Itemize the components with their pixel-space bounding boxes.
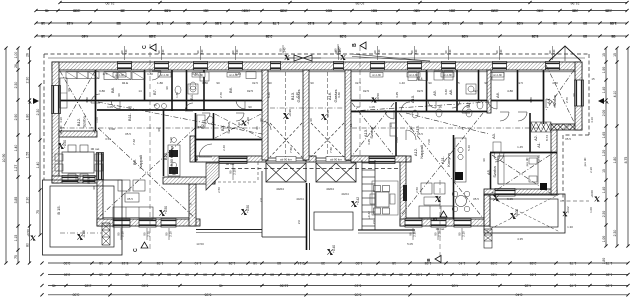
- svg-text:2.70: 2.70: [565, 97, 569, 103]
- svg-text:A1.: A1.: [537, 142, 541, 147]
- svg-text:2.30: 2.30: [613, 230, 617, 237]
- garage door label A: [326, 157, 346, 162]
- coffee table living B: [125, 193, 139, 202]
- window top wall 5: [271, 62, 281, 71]
- door arc A7: [462, 105, 470, 113]
- window living A front 2: [431, 219, 446, 228]
- svg-text:1.40: 1.40: [195, 261, 202, 265]
- svg-text:7.00: 7.00: [427, 139, 431, 145]
- svg-text:30: 30: [350, 272, 354, 276]
- exterior wall garage front: [196, 156, 266, 162]
- svg-text:26: 26: [14, 64, 18, 68]
- elevation mark drive A: [351, 201, 356, 206]
- svg-text:75: 75: [456, 81, 460, 85]
- svg-text:10.: 10.: [389, 123, 393, 127]
- svg-text:2.30: 2.30: [589, 167, 593, 173]
- lintel labels above windows: [124, 46, 126, 60]
- left dimension line col 2: [17, 48, 19, 263]
- svg-text:2.25: 2.25: [572, 8, 579, 12]
- svg-text:1.00: 1.00: [589, 207, 593, 213]
- svg-text:B11.: B11.: [127, 113, 132, 121]
- svg-text:240: 240: [377, 49, 381, 54]
- exterior wall west protrusion: [97, 176, 103, 226]
- ridge dash-dot line B: [60, 127, 262, 129]
- svg-text:3.00: 3.00: [73, 8, 80, 12]
- svg-text:90: 90: [185, 272, 189, 276]
- svg-text:sm 1.80: sm 1.80: [160, 74, 169, 77]
- gable symbol top right: [549, 46, 581, 61]
- svg-text:ab 90 ker: ab 90 ker: [280, 157, 292, 161]
- svg-text:5.40: 5.40: [267, 92, 271, 98]
- wardrobe room B12: [60, 78, 67, 108]
- svg-text:2.10: 2.10: [146, 231, 150, 237]
- svg-text:2.30: 2.30: [602, 211, 606, 218]
- door arc B2: [202, 113, 210, 121]
- svg-text:Szoba: Szoba: [369, 127, 374, 139]
- exterior wall right lower: [551, 126, 557, 195]
- svg-text:Szoba: Szoba: [552, 95, 557, 107]
- elevation mark B3: [242, 121, 247, 126]
- svg-text:1.80: 1.80: [602, 258, 606, 265]
- top dimension line row 1: [60, 2, 627, 4]
- svg-text:1.05: 1.05: [107, 105, 113, 109]
- svg-text:1.90: 1.90: [602, 67, 606, 74]
- window right wall: [575, 80, 584, 106]
- svg-text:2.10: 2.10: [233, 169, 237, 175]
- svg-text:Szoba: Szoba: [82, 116, 87, 128]
- roof diagonal A5: [492, 155, 550, 193]
- svg-text:7.32: 7.32: [132, 139, 136, 145]
- door arc A8: [452, 100, 460, 108]
- svg-text:1.75: 1.75: [570, 283, 577, 287]
- svg-text:B3.: B3.: [220, 125, 225, 131]
- svg-text:40/24: 40/24: [341, 192, 349, 196]
- svg-text:sm 1.80: sm 1.80: [443, 74, 452, 77]
- svg-text:15: 15: [613, 53, 617, 57]
- svg-text:4.60: 4.60: [165, 8, 172, 12]
- window living A front 1: [405, 219, 422, 228]
- garage A16 right wall: [345, 70, 351, 160]
- svg-text:1.80: 1.80: [356, 261, 363, 265]
- armchairs living B: [118, 180, 130, 191]
- svg-text:1.50: 1.50: [215, 21, 222, 25]
- interior wall B12 right: [95, 70, 97, 135]
- svg-text:A14.: A14.: [417, 77, 424, 81]
- interior wall corridor A top: [351, 100, 543, 102]
- entry porch B dashed outline: [208, 181, 258, 183]
- window A13 front: [369, 157, 395, 164]
- roof diagonal living B: [98, 128, 195, 218]
- svg-text:4.95: 4.95: [462, 34, 469, 38]
- interior wall B12 bottom hatched: [59, 131, 97, 137]
- svg-text:+0.50: +0.50: [63, 140, 67, 148]
- svg-text:1.55: 1.55: [25, 152, 29, 159]
- svg-text:+0.40: +0.40: [332, 245, 336, 253]
- svg-text:240: 240: [283, 47, 287, 52]
- garage B13 left wall: [262, 70, 268, 160]
- svg-text:4.60: 4.60: [371, 8, 378, 12]
- elevation mark B15: [77, 234, 82, 239]
- svg-text:90: 90: [259, 118, 263, 122]
- svg-text:26: 26: [25, 53, 29, 57]
- svg-text:+0.50: +0.50: [26, 229, 30, 237]
- bath B fixtures: [188, 84, 198, 94]
- svg-text:6.80: 6.80: [142, 283, 149, 287]
- svg-text:Konyha: Konyha: [446, 152, 451, 166]
- svg-text:-0.06: -0.06: [82, 230, 86, 237]
- svg-text:C: C: [142, 45, 148, 49]
- window left wall: [52, 86, 61, 114]
- svg-text:5.15: 5.15: [122, 261, 129, 265]
- svg-text:240: 240: [161, 49, 165, 54]
- svg-text:02.5: 02.5: [247, 89, 253, 93]
- svg-text:80: 80: [203, 272, 207, 276]
- svg-text:240: 240: [124, 49, 128, 54]
- svg-text:4.60: 4.60: [491, 272, 498, 276]
- elevation mark +0.50 patio B: [58, 143, 63, 148]
- window living A front 3: [454, 219, 471, 228]
- svg-text:+1.00: +1.00: [246, 117, 250, 125]
- window top wall 3: [194, 62, 208, 71]
- window top wall 11: [546, 62, 560, 71]
- entrance steps A: [484, 229, 492, 248]
- right dimension line col 2: [616, 48, 618, 246]
- svg-text:80: 80: [583, 21, 587, 25]
- hall cabinet A: [492, 72, 504, 80]
- exterior wall top: [52, 62, 582, 70]
- terrace B15 outline: [43, 180, 123, 255]
- exterior wall living A front: [400, 219, 490, 226]
- bath A fixtures 2: [434, 71, 443, 80]
- svg-text:240: 240: [448, 49, 452, 54]
- door arc bath B: [185, 103, 193, 111]
- svg-text:3.85: 3.85: [14, 197, 18, 204]
- svg-text:75: 75: [36, 210, 40, 214]
- interior wall B3 left: [213, 113, 215, 140]
- patio A outline: [372, 181, 398, 215]
- svg-text:8.40: 8.40: [516, 293, 523, 297]
- garage B13 centre line: [285, 72, 287, 157]
- window west wall terrace 2: [83, 176, 95, 184]
- svg-text:15: 15: [41, 21, 45, 25]
- window top wall 6: [334, 62, 344, 71]
- door arc A10: [401, 102, 410, 111]
- window top wall 8: [408, 62, 422, 71]
- svg-text:1.05: 1.05: [369, 105, 375, 109]
- door arc A13: [385, 110, 394, 119]
- svg-text:2.85: 2.85: [530, 261, 537, 265]
- svg-text:B6.: B6.: [228, 87, 233, 93]
- svg-text:3.30: 3.30: [64, 272, 71, 276]
- svg-text:4.95: 4.95: [517, 21, 524, 25]
- svg-text:02.5: 02.5: [363, 89, 369, 93]
- svg-text:2.85: 2.85: [85, 283, 92, 287]
- window sill label boxes: [113, 73, 126, 78]
- radiator A13 wall: [390, 123, 396, 136]
- svg-text:05.5: 05.5: [473, 197, 479, 201]
- kitchen counter A: [455, 138, 466, 182]
- attic stair A with X bracing: [531, 122, 551, 132]
- interior wall A9 right: [456, 70, 458, 111]
- door arc A3: [518, 112, 527, 121]
- top dimension line row 2: [36, 10, 627, 12]
- svg-text:2.75: 2.75: [376, 21, 383, 25]
- svg-text:80: 80: [583, 34, 587, 38]
- party wall between garages: [303, 70, 309, 160]
- interior wall A2 divider: [529, 113, 531, 153]
- roof diagonal garage A16: [311, 123, 344, 157]
- svg-text:pro 90: pro 90: [583, 157, 587, 166]
- window top wall 4: [229, 62, 243, 71]
- svg-text:+0.98: +0.98: [288, 109, 292, 117]
- svg-text:4.35: 4.35: [517, 237, 523, 241]
- svg-text:80: 80: [277, 261, 281, 265]
- roof diagonal living A: [399, 113, 483, 218]
- svg-text:30: 30: [150, 272, 154, 276]
- svg-text:10.90: 10.90: [2, 154, 6, 163]
- svg-text:1.20: 1.20: [602, 150, 606, 157]
- svg-text:4.25: 4.25: [395, 92, 399, 98]
- wardrobe row room B8: [104, 72, 117, 80]
- svg-text:2.0: 2.0: [372, 220, 376, 225]
- svg-text:240: 240: [552, 49, 556, 54]
- svg-text:40: 40: [343, 21, 347, 25]
- svg-text:3.30: 3.30: [73, 293, 80, 297]
- svg-text:80: 80: [270, 272, 274, 276]
- svg-text:90: 90: [428, 81, 432, 85]
- svg-text:05.5: 05.5: [127, 197, 133, 201]
- svg-text:16: 16: [188, 202, 192, 206]
- garage door sill B: [266, 157, 306, 159]
- svg-text:9.25: 9.25: [340, 34, 347, 38]
- svg-text:3.40: 3.40: [444, 89, 448, 95]
- svg-text:45: 45: [52, 283, 56, 287]
- svg-text:4.15: 4.15: [67, 21, 74, 25]
- svg-text:Szoba: Szoba: [226, 122, 231, 134]
- svg-text:+0.50: +0.50: [164, 206, 168, 214]
- door arc A6: [488, 100, 497, 109]
- svg-text:02.5: 02.5: [517, 81, 523, 85]
- svg-text:C: C: [133, 248, 139, 252]
- svg-text:B: B: [352, 43, 358, 47]
- svg-text:240: 240: [200, 49, 204, 54]
- svg-text:2.70: 2.70: [219, 92, 223, 98]
- svg-text:05.5: 05.5: [565, 137, 571, 141]
- svg-text:1.80: 1.80: [157, 81, 163, 85]
- sofa living A: [419, 206, 453, 218]
- interior wall B7 right: [171, 70, 173, 111]
- svg-text:+0.42: +0.42: [356, 197, 360, 205]
- svg-text:2.85: 2.85: [491, 261, 498, 265]
- ridge line dashed top: [149, 44, 151, 252]
- door arc entry B: [199, 144, 212, 157]
- door arc B12: [91, 94, 100, 103]
- elevation mark terrace A corner: [563, 212, 567, 216]
- paving edge A: [358, 229, 415, 231]
- right dimension line col 1: [605, 48, 607, 246]
- svg-text:16.: 16.: [198, 125, 202, 129]
- svg-text:4.30: 4.30: [59, 117, 63, 123]
- svg-text:14: 14: [239, 272, 243, 276]
- svg-text:45: 45: [219, 283, 223, 287]
- svg-text:30: 30: [255, 272, 259, 276]
- svg-text:90: 90: [409, 126, 413, 130]
- svg-text:1.75: 1.75: [570, 261, 577, 265]
- window tick utility B: [232, 163, 234, 180]
- lintel tick B: [282, 45, 284, 55]
- svg-text:1.95: 1.95: [610, 21, 617, 25]
- svg-text:90: 90: [255, 126, 259, 130]
- svg-text:80: 80: [366, 272, 370, 276]
- chimney block A5: [540, 183, 547, 190]
- dining table B14: [62, 152, 94, 173]
- property line center: [306, 183, 308, 250]
- svg-text:175: 175: [102, 72, 107, 76]
- svg-text:sm 1.80: sm 1.80: [372, 74, 381, 77]
- svg-text:16: 16: [438, 105, 442, 109]
- svg-text:80: 80: [316, 272, 320, 276]
- svg-text:pro 90: pro 90: [525, 157, 529, 166]
- outdoor dining table A: [376, 192, 389, 207]
- door arc living A: [406, 130, 416, 140]
- svg-text:1.40: 1.40: [14, 145, 18, 152]
- svg-text:10.95: 10.95: [356, 1, 365, 5]
- svg-text:46: 46: [538, 8, 542, 12]
- svg-text:2.10: 2.10: [120, 231, 124, 237]
- window west wall terrace 1: [62, 176, 78, 184]
- svg-text:02.E: 02.E: [122, 81, 128, 85]
- svg-text:1.80: 1.80: [175, 92, 179, 98]
- elevation mark A13: [372, 98, 377, 103]
- svg-text:15: 15: [99, 261, 103, 265]
- svg-text:5.05: 5.05: [407, 242, 413, 246]
- walkway ladder A: [361, 160, 363, 230]
- svg-text:90: 90: [248, 105, 252, 109]
- svg-text:80: 80: [203, 8, 207, 12]
- exterior wall living B front: [97, 219, 200, 226]
- washbasins B7: [155, 104, 160, 109]
- closet row room B12: [66, 72, 77, 79]
- roof diagonal room B12: [60, 71, 95, 133]
- interior wall corridor B top: [59, 100, 262, 102]
- svg-text:1.30: 1.30: [570, 272, 577, 276]
- svg-text:3.80: 3.80: [99, 89, 105, 93]
- svg-text:4.80: 4.80: [552, 81, 558, 85]
- interior wall A4 left: [543, 70, 545, 124]
- svg-text:02.5: 02.5: [417, 89, 423, 93]
- svg-text:2.30: 2.30: [36, 109, 40, 116]
- svg-text:+0.02: +0.02: [566, 206, 570, 214]
- svg-text:2.30: 2.30: [14, 82, 18, 89]
- wall A13 front: [351, 156, 406, 162]
- svg-text:5.10: 5.10: [308, 21, 315, 25]
- svg-text:2.40: 2.40: [205, 34, 212, 38]
- interior wall kitchen A right: [453, 135, 455, 219]
- svg-text:2.40: 2.40: [491, 8, 498, 12]
- svg-text:sm 1.80: sm 1.80: [493, 74, 502, 77]
- door arc garage B: [262, 121, 271, 130]
- svg-text:1.75: 1.75: [273, 21, 280, 25]
- svg-text:Nappali: Nappali: [419, 145, 424, 159]
- svg-text:46: 46: [45, 8, 49, 12]
- svg-text:15: 15: [99, 272, 103, 276]
- svg-text:8.75: 8.75: [624, 157, 628, 164]
- svg-text:90: 90: [92, 186, 96, 190]
- svg-text:95: 95: [611, 34, 615, 38]
- apron slab A: [314, 212, 353, 230]
- ridge dash-dot line A: [352, 127, 545, 129]
- svg-text:1.15: 1.15: [14, 235, 18, 242]
- entrance steps B: [102, 223, 110, 245]
- svg-text:90: 90: [128, 105, 132, 109]
- window living B front 1: [113, 219, 130, 228]
- svg-text:21.90: 21.90: [106, 1, 115, 5]
- svg-text:15: 15: [602, 169, 606, 173]
- svg-text:A3.: A3.: [492, 133, 496, 139]
- svg-text:1.40: 1.40: [36, 162, 40, 169]
- svg-text:90: 90: [67, 88, 71, 92]
- svg-text:5.95: 5.95: [205, 293, 212, 297]
- svg-text:+0.50: +0.50: [376, 93, 380, 101]
- svg-text:80: 80: [328, 8, 332, 12]
- svg-text:B12.: B12.: [76, 118, 81, 126]
- wardrobe B6: [246, 72, 256, 79]
- svg-text:5.05: 5.05: [507, 197, 513, 201]
- svg-text:1.00: 1.00: [395, 137, 399, 143]
- svg-text:2.40: 2.40: [222, 145, 226, 151]
- svg-text:1.00: 1.00: [602, 236, 606, 243]
- driveway edge bottom: [262, 236, 306, 238]
- svg-text:3.80: 3.80: [192, 72, 198, 76]
- svg-text:02.5: 02.5: [252, 81, 258, 85]
- svg-text:80: 80: [244, 21, 248, 25]
- svg-text:+0.00: +0.00: [515, 209, 519, 217]
- roof diagonal A13: [352, 103, 394, 156]
- svg-text:40/24: 40/24: [326, 187, 334, 191]
- roof diagonal corridor A: [351, 102, 489, 111]
- svg-text:A16.: A16.: [327, 92, 332, 100]
- svg-text:90: 90: [157, 128, 161, 132]
- svg-text:A12.: A12.: [413, 148, 418, 156]
- svg-text:80: 80: [116, 21, 120, 25]
- window top wall 9: [442, 62, 456, 71]
- svg-text:1.00: 1.00: [109, 127, 115, 131]
- svg-text:1.65: 1.65: [602, 132, 606, 139]
- svg-text:1.30: 1.30: [606, 272, 613, 276]
- svg-text:2.30: 2.30: [25, 77, 29, 84]
- patio door leaf A: [403, 185, 407, 201]
- svg-text:3.55: 3.55: [105, 137, 111, 141]
- svg-text:2.0: 2.0: [259, 198, 263, 203]
- interior wall A8 right: [478, 70, 480, 100]
- svg-text:5,90 Konyha: 5,90 Konyha: [170, 146, 174, 166]
- svg-text:14: 14: [138, 89, 142, 93]
- svg-text:5.25: 5.25: [532, 34, 539, 38]
- svg-text:3.20: 3.20: [529, 97, 533, 103]
- interior wall B8 right: [144, 70, 146, 100]
- svg-text:1.40: 1.40: [437, 272, 444, 276]
- svg-text:06 net: 06 net: [91, 147, 100, 151]
- window top wall 7: [371, 62, 385, 71]
- coffee table living A: [424, 197, 440, 205]
- svg-text:75: 75: [14, 255, 18, 259]
- driveway edge left: [261, 171, 263, 237]
- door arc A5: [495, 153, 504, 162]
- svg-text:1.40: 1.40: [602, 87, 606, 94]
- svg-text:1.40: 1.40: [235, 72, 241, 76]
- svg-text:B7.: B7.: [152, 89, 157, 95]
- svg-text:+0.42: +0.42: [367, 211, 371, 219]
